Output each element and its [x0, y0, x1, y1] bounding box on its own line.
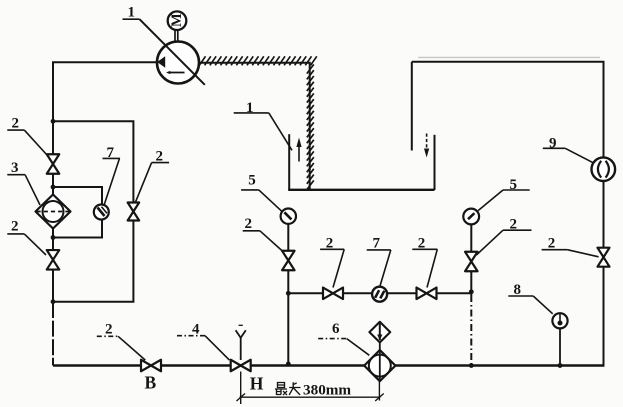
label H	[250, 374, 264, 394]
node: left main junctions	[51, 119, 56, 304]
node: left gauge column junctions	[286, 291, 291, 367]
label 2 (right main valve)	[542, 236, 599, 257]
label 2 (valve B)	[97, 321, 146, 360]
wire: left main vertical	[52, 62, 54, 365]
valve B (2) drain	[141, 360, 161, 372]
svg-text:H: H	[250, 374, 264, 394]
svg-text:1: 1	[128, 5, 136, 21]
dimension: max length 380mm	[237, 372, 384, 405]
valve 2 middle-right	[417, 288, 437, 300]
valve 2 middle-left	[323, 288, 343, 300]
valve 2 below right gauge	[465, 252, 478, 272]
wire: tank return pipe	[411, 62, 413, 151]
svg-text:B: B	[145, 372, 157, 392]
label 6 (filter)	[318, 321, 369, 355]
gauge 7 (bypass differential indicator)	[94, 205, 109, 220]
node: right gauge column junctions	[469, 289, 474, 368]
valve 2 outer bypass	[128, 203, 139, 221]
wire: top-right horizontal	[418, 56, 600, 58]
filter 6 (with bypass check)	[364, 322, 395, 381]
svg-text:3: 3	[11, 160, 19, 176]
wire: filter bypass loop	[53, 187, 102, 238]
sight flow indicator 9	[592, 157, 616, 181]
flow arrow up (suction) inside tank	[296, 138, 301, 162]
label 3 (filter)	[7, 160, 40, 205]
flow arrow down (return) into tank	[424, 134, 429, 158]
valve 2 upper-left	[47, 154, 60, 174]
label B	[145, 372, 157, 392]
label 1 (pump)	[123, 5, 140, 21]
label 1 (suction pipe into tank)	[234, 100, 292, 150]
label 2 (right gauge valve)	[476, 216, 531, 255]
label 2 (left gauge valve)	[243, 216, 284, 252]
label 5 (left gauge)	[241, 172, 282, 211]
wire: outer bypass loop	[53, 121, 133, 301]
svg-text:2: 2	[245, 216, 253, 232]
wire: pump discharge hatched horizontal	[199, 56, 317, 65]
valve 4 (H) with vent	[231, 325, 251, 371]
wire: discharge hatched vertical into tank	[307, 63, 314, 190]
label 7 (bypass indicator)	[103, 145, 121, 205]
label 8 (thermometer)	[508, 282, 552, 314]
label 4 (valve H)	[177, 321, 229, 360]
label 9 (flow indicator)	[543, 136, 594, 164]
pressure gauge 5 (right)	[463, 209, 479, 225]
wire: right gauge column	[470, 224, 472, 366]
label 2 (upper-left valve)	[7, 115, 47, 155]
svg-text:380mm: 380mm	[303, 382, 351, 399]
wire: pump suction horizontal	[52, 61, 158, 63]
label 7 (flow meter)	[367, 236, 391, 286]
label 2 (outer bypass valve)	[135, 149, 169, 203]
svg-text:2: 2	[105, 321, 113, 337]
tank (oil reservoir)	[288, 134, 434, 190]
pump U1 variable displacement with motor	[140, 11, 205, 84]
svg-text:5: 5	[248, 172, 256, 188]
label 5 (right gauge)	[478, 177, 530, 210]
wire: bottom main horizontal	[53, 364, 605, 367]
flow meter 7 (middle)	[372, 287, 387, 302]
svg-text:4: 4	[192, 321, 200, 337]
valve 2 right main	[598, 248, 610, 267]
wire: middle test branch	[288, 292, 471, 294]
label 2 (middle-right valve)	[412, 236, 437, 288]
thermometer 8	[552, 313, 567, 368]
label 2 (lower-left valve)	[7, 219, 46, 255]
svg-text:2: 2	[12, 115, 20, 131]
svg-text:2: 2	[11, 219, 19, 235]
text: zui chang 380mm	[275, 382, 351, 399]
filter 3 (cooler)	[36, 195, 71, 229]
wire: left gauge column	[287, 224, 289, 366]
valve 2 lower-left	[47, 250, 60, 269]
valve 2 below left gauge	[282, 251, 295, 271]
pressure gauge 5 (left)	[281, 209, 296, 224]
svg-text:M: M	[169, 13, 185, 27]
svg-text:6: 6	[332, 321, 340, 337]
wire: right main vertical	[603, 62, 605, 366]
label 2 (middle-left valve)	[320, 236, 344, 288]
